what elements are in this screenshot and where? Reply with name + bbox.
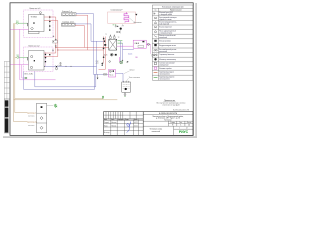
svg-text:Воздухоотводчик автом.: Воздухоотводчик автом. xyxy=(159,45,176,47)
boiler enclosure 2 (dashed) xyxy=(24,47,54,72)
svg-text:ВК 1.3 (R): ВК 1.3 (R) xyxy=(25,73,34,75)
svg-text:СА-В: СА-В xyxy=(134,42,139,45)
tank drain xyxy=(124,92,126,94)
stabilizer enclosure xyxy=(108,12,136,23)
thermometer TI1 xyxy=(39,12,41,14)
valve right of CA-B xyxy=(147,43,149,45)
valve near pump xyxy=(115,54,117,56)
air vent leader xyxy=(129,18,133,22)
svg-text:12: 12 xyxy=(188,125,190,127)
wire red X1 xyxy=(76,15,88,50)
svg-text:Листов: Листов xyxy=(187,122,192,124)
svg-text:ГК2: ГК2 xyxy=(16,55,19,57)
gas cock boiler 2 (green) xyxy=(17,56,27,58)
boiler 2 burner mark xyxy=(34,60,35,61)
boiler 2 circle mark 2 xyxy=(30,66,32,68)
svg-text:Т2: Т2 xyxy=(118,37,120,39)
condensate tank xyxy=(122,81,131,92)
blue stub below CA-B xyxy=(123,49,134,51)
fill fitting column xyxy=(113,25,124,34)
svg-text:1: 1 xyxy=(180,125,181,127)
svg-text:Лист: Лист xyxy=(111,119,115,121)
wire box to tank xyxy=(116,73,124,82)
elbow into boiler 2 xyxy=(26,57,29,60)
green ticks xyxy=(113,24,115,26)
blue return main xyxy=(44,65,97,67)
makeup inlet boiler 1 (magenta) xyxy=(10,28,28,30)
svg-text:Стадия: Стадия xyxy=(170,122,175,124)
signature (blue) xyxy=(127,122,131,133)
red main bus xyxy=(56,47,109,49)
svg-text:Термометр биметалл.: Термометр биметалл. xyxy=(159,54,175,56)
svg-text:Др: Др xyxy=(153,13,155,15)
legend table xyxy=(152,5,193,80)
air vent symbol xyxy=(135,14,137,16)
consumer arrows xyxy=(101,63,103,65)
left margin stamp table xyxy=(4,62,9,100)
svg-text:теплоносителя: теплоносителя xyxy=(159,74,170,76)
green ticks right of HX xyxy=(118,40,123,42)
svg-text:Т1: Т1 xyxy=(105,34,107,36)
legend rows text xyxy=(159,11,177,80)
DHW risers xyxy=(99,37,106,70)
svg-text:Клапан предохранитель-: Клапан предохранитель- xyxy=(159,21,177,23)
blue return run 1 xyxy=(35,72,96,87)
gas cock boiler 1 (green) xyxy=(16,22,27,24)
fitting at end of wire xyxy=(104,40,106,42)
page shadow right xyxy=(195,3,197,138)
gas meter (green) xyxy=(54,104,57,108)
svg-text:Котел газ. №2: Котел газ. №2 xyxy=(29,44,40,47)
wire red X2 xyxy=(75,25,84,47)
svg-text:РИУС: РИУС xyxy=(179,130,189,134)
svg-text:Пров.: Пров. xyxy=(104,125,109,127)
gas main horizontal xyxy=(14,99,118,122)
svg-text:Петров: Петров xyxy=(111,125,116,127)
branch to meter xyxy=(47,105,54,107)
svg-text:котельной: котельной xyxy=(152,130,160,133)
red riser 1 xyxy=(55,17,57,53)
control wires from blocks xyxy=(75,14,104,75)
svg-text:Подп.: Подп. xyxy=(125,119,130,121)
terminal block X2 xyxy=(61,23,75,26)
drain stub mark xyxy=(97,78,99,80)
return line dots xyxy=(43,65,46,68)
riser cross fittings xyxy=(55,39,57,41)
boiler 2 outlet fittings column xyxy=(45,52,51,66)
riser fittings xyxy=(103,38,105,40)
gas drops to flues xyxy=(15,112,28,114)
svg-text:05.21: 05.21 xyxy=(134,122,138,124)
appliance box xyxy=(37,103,47,133)
svg-text:Дата: Дата xyxy=(134,119,137,121)
svg-text:12: 12 xyxy=(186,127,188,129)
drain feeder xyxy=(96,41,98,74)
pump P2 xyxy=(120,61,123,64)
header row smudge xyxy=(104,118,137,121)
drain valves xyxy=(103,74,105,76)
wire down from valve xyxy=(150,44,152,54)
wire blue X2 xyxy=(75,24,104,41)
return blue long runs xyxy=(24,41,109,89)
svg-text:Ду: Ду xyxy=(122,25,124,27)
boiler 1 diamond xyxy=(31,27,34,30)
lower fitting circle xyxy=(109,61,111,63)
return thermometer xyxy=(60,63,61,64)
svg-text:ГК1: ГК1 xyxy=(16,21,19,23)
left margin inventory strip xyxy=(4,99,9,133)
svg-text:Трубопровод подачи: Трубопровод подачи xyxy=(159,71,174,73)
legend symbols xyxy=(153,13,157,77)
riser fitting box xyxy=(53,41,58,44)
title block right part xyxy=(143,115,193,136)
expansion coil (magenta serpentine) xyxy=(124,12,129,22)
svg-text:Наименование: Наименование xyxy=(170,10,182,12)
page shadow bottom xyxy=(3,136,197,138)
svg-text:Е-1953-010-2021-ТМ: Е-1953-010-2021-ТМ xyxy=(173,110,190,112)
svg-text:дом: дом xyxy=(96,63,99,65)
svg-text:Стабилизатор Р: Стабилизатор Р xyxy=(111,9,123,11)
boiler 1 outlet fittings column xyxy=(49,16,51,32)
svg-text:Насос: Насос xyxy=(109,75,114,77)
makeup valve (green) xyxy=(25,77,27,79)
return diamond fitting xyxy=(55,68,58,71)
terminal block X1 xyxy=(62,13,76,16)
svg-text:Иванов: Иванов xyxy=(111,122,116,124)
HX stubs xyxy=(110,37,112,39)
boiler supply stubs (red) xyxy=(44,17,109,57)
junction dots xyxy=(55,47,56,48)
svg-text:отопления из труб Ду32: отопления из труб Ду32 xyxy=(162,105,179,107)
svg-text:Шланг: Шланг xyxy=(130,70,135,72)
title block xyxy=(104,112,193,136)
svg-text:Котельная: Котельная xyxy=(164,120,171,122)
svg-text:Лист: Лист xyxy=(179,122,182,124)
svg-text:Ревизия и пробка: Ревизия и пробка xyxy=(159,68,171,70)
svg-text:05.21: 05.21 xyxy=(134,125,138,127)
magenta stub xyxy=(119,57,121,62)
boiler B1 body xyxy=(29,15,45,32)
boiler B2 body xyxy=(29,51,45,71)
svg-text:Трубопровод обратки: Трубопровод обратки xyxy=(159,76,174,78)
controller box CA-B xyxy=(133,40,146,48)
svg-text:Условные обозначения: Условные обозначения xyxy=(162,7,184,9)
svg-text:№: № xyxy=(155,9,157,12)
makeup risers (magenta) xyxy=(20,29,56,80)
svg-text:Ду40: Ду40 xyxy=(59,65,63,67)
pump P1 xyxy=(110,53,113,56)
gas cock (green) xyxy=(102,96,104,98)
drain header xyxy=(94,73,109,75)
svg-text:теплоносителя: теплоносителя xyxy=(159,79,170,81)
svg-text:ТК 3801: ТК 3801 xyxy=(31,17,38,19)
return valve xyxy=(56,66,58,68)
gas riser pair (olive) xyxy=(14,23,17,121)
svg-text:вытяжка: вытяжка xyxy=(28,125,34,127)
svg-text:Все внутренние трубопроводы си: Все внутренние трубопроводы системы xyxy=(157,103,186,105)
blue return run 2 xyxy=(24,72,95,90)
svg-text:д. Зеленково, СНТ "Турист", уч: д. Зеленково, СНТ "Турист", уч. 62 xyxy=(156,118,180,120)
small valve symbol xyxy=(152,54,154,56)
svg-text:Котел газ. №1: Котел газ. №1 xyxy=(30,7,41,10)
drawing frame xyxy=(10,3,193,136)
svg-text:Манометр показывающ.: Манометр показывающ. xyxy=(159,59,176,61)
wire blue X1 xyxy=(76,14,94,75)
svg-text:Тепл. носитель: Тепл. носитель xyxy=(129,77,140,79)
title block left grid xyxy=(104,112,144,136)
boiler enclosure 1 (dashed) xyxy=(24,10,54,38)
riser small marks xyxy=(53,36,55,38)
red riser 2 xyxy=(57,21,59,57)
header row band xyxy=(104,119,143,120)
elbow into boiler 1 xyxy=(26,23,29,26)
node dot xyxy=(122,60,123,61)
blue drops from HX xyxy=(120,41,122,61)
svg-text:Разраб.: Разраб. xyxy=(104,122,110,124)
boiler 2 circle mark xyxy=(31,56,33,58)
svg-text:с мокрым ротором: с мокрым ротором xyxy=(159,32,172,34)
svg-text:24В: 24В xyxy=(135,57,138,59)
svg-text:Н.контр.: Н.контр. xyxy=(104,132,110,134)
svg-text:Е-1953-010-2021-ТМ: Е-1953-010-2021-ТМ xyxy=(159,113,178,115)
makeup inlet boiler 2 (magenta) xyxy=(10,64,28,66)
wire to CA-B (magenta) xyxy=(117,45,134,47)
svg-text:2х1,5: 2х1,5 xyxy=(128,54,132,56)
plate heat exchanger T1 xyxy=(109,35,117,50)
svg-text:Изм: Изм xyxy=(104,119,107,121)
boiler 1 burner mark xyxy=(33,22,34,23)
svg-text:вытяжка: вытяжка xyxy=(28,116,34,118)
drain pump box (magenta) xyxy=(109,70,116,78)
